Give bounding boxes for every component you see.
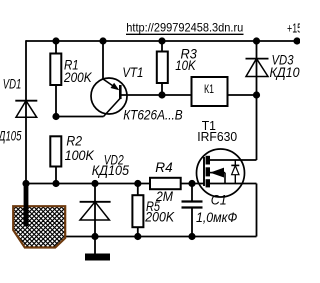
- node top rail junction VD3: [253, 37, 260, 44]
- node R3 base junction: [158, 91, 165, 98]
- wire R3 top stub: [161, 41, 163, 52]
- svg-text:КТ626А...В: КТ626А...В: [123, 107, 183, 122]
- wire gate line horizontal: [26, 183, 151, 185]
- capacitor C1: [182, 184, 203, 237]
- svg-text:http://299792458.3dn.ru: http://299792458.3dn.ru: [126, 21, 243, 35]
- wire R5 bottom stub: [137, 227, 139, 236]
- resistor R3: [157, 52, 168, 84]
- svg-text:10K: 10K: [175, 58, 196, 73]
- resistor R5: [132, 195, 143, 227]
- transistor T1 MOSFET: [197, 149, 257, 197]
- wire top rail +15V: [26, 40, 298, 42]
- wire bottom rail: [64, 236, 257, 238]
- resistor R2: [50, 136, 61, 166]
- node top rail junction VT1 emitter: [99, 37, 106, 44]
- node top rail junction R1: [52, 37, 59, 44]
- wire VT1 base to K1: [120, 94, 191, 96]
- svg-text:VD1: VD1: [3, 77, 22, 92]
- svg-text:R2: R2: [66, 133, 82, 148]
- node divider junction: [52, 113, 59, 120]
- node gate junction R4 C1: [188, 180, 195, 187]
- wire sensor thick lead: [24, 184, 29, 227]
- svg-text:200K: 200K: [63, 70, 92, 85]
- svg-text:IRF630: IRF630: [197, 129, 237, 144]
- svg-text:C1: C1: [211, 193, 227, 208]
- resistor R1: [50, 54, 61, 86]
- diode VD1: [15, 101, 37, 118]
- wire left rail: [25, 40, 27, 183]
- svg-text:100K: 100K: [65, 148, 95, 163]
- wire R5 top stub: [137, 184, 139, 196]
- transistor VT1: [91, 41, 127, 117]
- wire source vertical to bottom rail: [256, 184, 258, 237]
- node bottom rail junction R5: [134, 233, 141, 240]
- svg-text:К1: К1: [204, 84, 214, 96]
- resistor R4: [150, 178, 181, 189]
- wire R2 bottom stub: [55, 167, 57, 184]
- diode VD2: [80, 184, 111, 237]
- wire drain vertical: [256, 95, 258, 160]
- svg-text:+15В: +15В: [287, 22, 300, 36]
- wire K1 to drain node: [228, 94, 257, 96]
- node bottom rail junction C1: [188, 233, 195, 240]
- wire R1-R2 divider to VT1 collector: [56, 116, 104, 118]
- wire R4 to gate: [181, 183, 205, 185]
- svg-text:200K: 200K: [144, 210, 175, 225]
- svg-text:1,0мкФ: 1,0мкФ: [196, 210, 238, 225]
- svg-text:КД105: КД105: [0, 129, 22, 144]
- node +15V terminal dot: [293, 37, 300, 44]
- label url underline: [126, 33, 244, 35]
- node gate wire junction R2: [52, 180, 59, 187]
- svg-text:VT1: VT1: [122, 65, 143, 80]
- ground: [85, 237, 110, 261]
- wire R1 top stub: [55, 41, 57, 54]
- wire R1 bottom stub: [55, 85, 57, 117]
- diode VD3: [246, 41, 269, 95]
- svg-text:КД105: КД105: [270, 65, 301, 80]
- node K1 drain junction: [253, 91, 260, 98]
- svg-text:КД105: КД105: [92, 163, 130, 178]
- node gate wire junction R5 R4: [134, 180, 141, 187]
- node bottom rail junction VD2: [91, 233, 98, 240]
- svg-text:R4: R4: [155, 160, 172, 175]
- node top rail junction R3: [158, 37, 165, 44]
- relay K1: [192, 77, 228, 106]
- node gate wire junction sensor: [22, 180, 29, 187]
- node gate wire junction VD2: [91, 180, 98, 187]
- wire R3 bottom stub: [161, 83, 163, 95]
- sensor touch plate E1: [0, 149, 113, 283]
